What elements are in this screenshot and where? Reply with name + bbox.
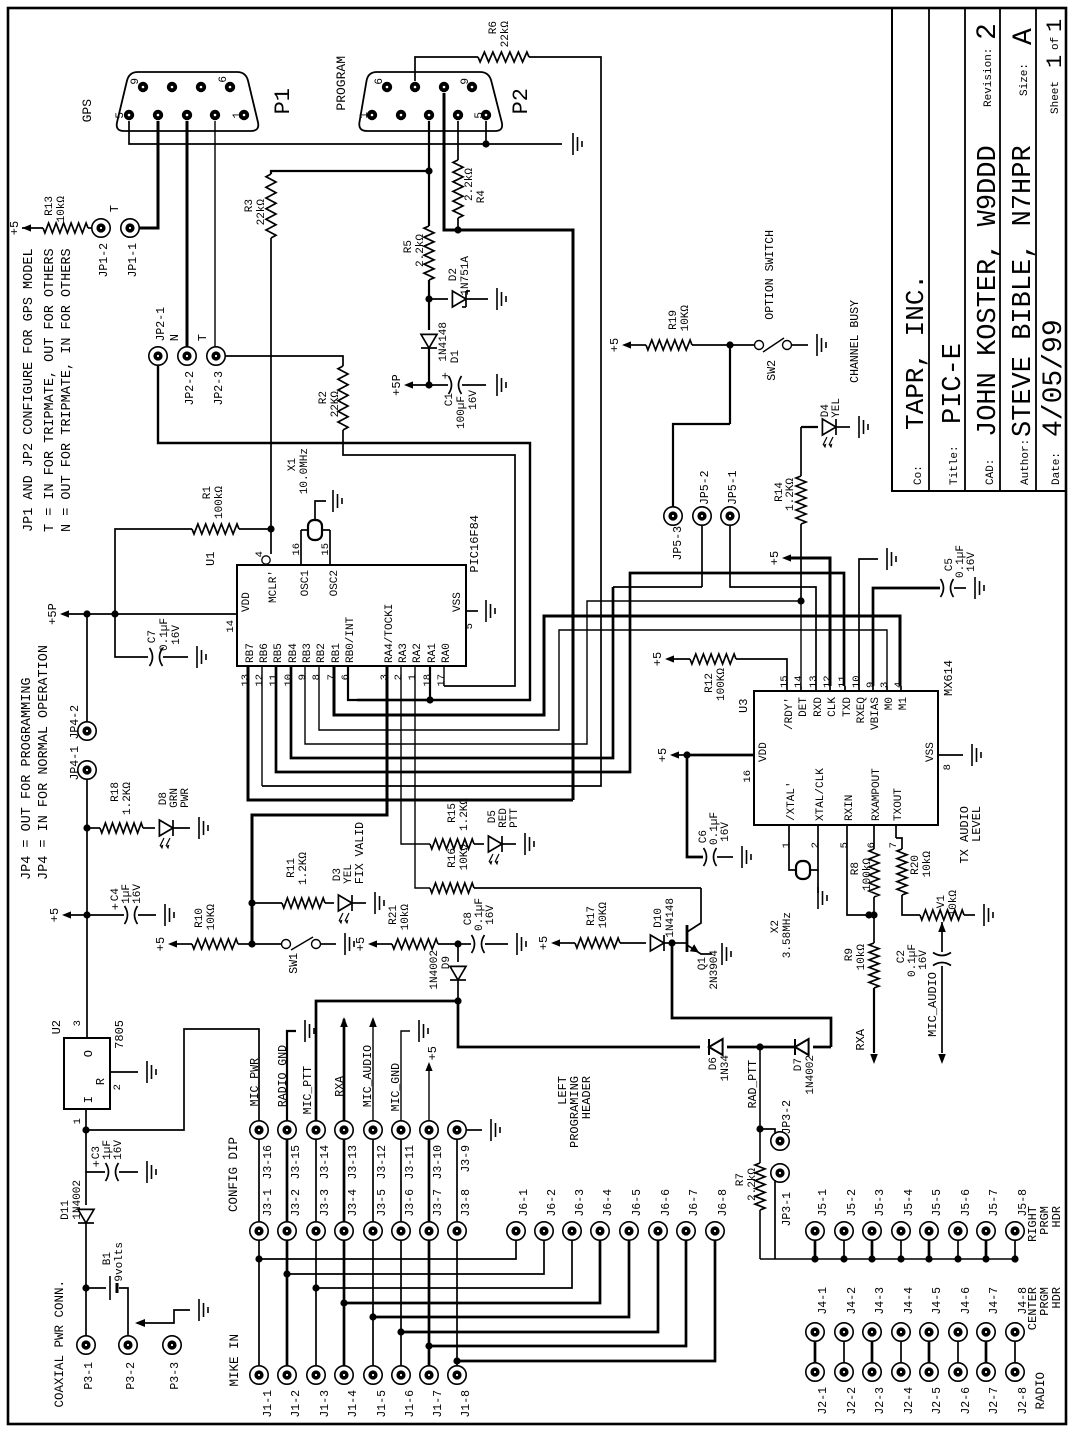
- svg-text:0.1µF: 0.1µF: [159, 618, 171, 651]
- U1 pin 12 RB6: [254, 643, 271, 686]
- pad J2-1: [806, 1363, 830, 1415]
- U3 pin 6 RXAMPOUT: [866, 768, 883, 849]
- junction R1/MCLR: [267, 525, 274, 532]
- svg-text:1N4002: 1N4002: [805, 1055, 817, 1095]
- svg-text:R10: R10: [194, 908, 206, 928]
- resistor R7 2.2k: [735, 1163, 765, 1259]
- wire R6 right to RB6 net: [262, 57, 601, 786]
- resistor R9 100k: [844, 915, 879, 1053]
- title block: [892, 8, 1070, 491]
- svg-text:12: 12: [254, 674, 266, 687]
- wire R6 left to P2 pin7: [415, 57, 478, 81]
- svg-text:Sheet: Sheet: [1050, 81, 1062, 114]
- U3 pin 12 CLK: [822, 675, 839, 716]
- ground (D4): [859, 416, 868, 438]
- pad J4-1: [806, 1287, 830, 1341]
- svg-text:D6: D6: [708, 1057, 720, 1070]
- wire RB4 to JP5-2 (RXD side): [291, 587, 613, 758]
- svg-text:3: 3: [72, 1020, 84, 1026]
- svg-text:R5: R5: [403, 240, 415, 253]
- junction U2 input / C3: [82, 1126, 89, 1133]
- wire J3-11 to J3-6: [400, 1139, 402, 1222]
- pad J1-3: [307, 1366, 332, 1418]
- svg-text:JP2-3: JP2-3: [213, 371, 226, 406]
- svg-text:J6-2: J6-2: [546, 1189, 559, 1217]
- junction C6: [683, 751, 690, 758]
- svg-text:15: 15: [779, 675, 791, 688]
- svg-text:R3: R3: [244, 199, 256, 212]
- junction RAD_PTT: [756, 1043, 763, 1050]
- U1 pin 4 MCLR: [254, 529, 280, 603]
- svg-text:RA1: RA1: [427, 643, 439, 663]
- svg-text:RA3: RA3: [398, 643, 410, 663]
- junction D2: [425, 295, 432, 302]
- svg-text:J6-3: J6-3: [574, 1189, 587, 1217]
- svg-text:MIC_AUDIO: MIC_AUDIO: [926, 972, 940, 1037]
- svg-text:FIX VALID: FIX VALID: [354, 822, 367, 884]
- U3 pin 11 TXD: [837, 675, 854, 716]
- svg-text:JP1-2: JP1-2: [98, 243, 111, 278]
- svg-text:JP1 AND JP2 CONFIGURE FOR GPS: JP1 AND JP2 CONFIGURE FOR GPS MODEL: [22, 248, 37, 532]
- pad J3-13: [335, 1121, 360, 1180]
- svg-text:J1-5: J1-5: [376, 1390, 389, 1418]
- wire R2 to RA0: [343, 430, 515, 686]
- jumper pad JP2-3: [207, 347, 226, 406]
- ground (Q1 emitter): [722, 943, 731, 965]
- svg-text:JP3-2: JP3-2: [781, 1100, 794, 1135]
- svg-text:U1: U1: [204, 552, 218, 566]
- svg-text:J3-9: J3-9: [460, 1145, 473, 1173]
- svg-text:RB6: RB6: [259, 643, 271, 663]
- wire D9 node to RAD_PTT row: [458, 1001, 700, 1047]
- jumper pad JP3-2: [760, 1100, 794, 1150]
- junction +5P node: [425, 381, 432, 388]
- label MIC_GND: [390, 1031, 410, 1121]
- label RADIO_GND: [277, 1031, 296, 1121]
- svg-text:SW1: SW1: [288, 953, 301, 974]
- svg-text:U3: U3: [737, 699, 751, 713]
- svg-text:11: 11: [837, 675, 849, 688]
- pad J2-6: [949, 1363, 973, 1415]
- svg-text:D1: D1: [450, 350, 462, 364]
- svg-text:J3-6: J3-6: [404, 1189, 417, 1217]
- svg-text:1: 1: [72, 1118, 84, 1124]
- power +5P: [390, 374, 429, 396]
- svg-text:J3-16: J3-16: [262, 1145, 275, 1180]
- U3 pin 5 RXIN: [839, 795, 856, 849]
- svg-text:Author:: Author:: [1020, 439, 1032, 485]
- svg-text:MIC_PWR: MIC_PWR: [249, 1058, 262, 1106]
- diode D9 1N4002: [429, 944, 466, 1001]
- label LEFT PROGRAMING HEADER: [556, 1076, 594, 1148]
- junction R11: [248, 899, 255, 906]
- wire MIC_PWR feed: [86, 1029, 259, 1130]
- svg-text:J2-2: J2-2: [846, 1387, 859, 1415]
- pad J6-2: [535, 1189, 559, 1240]
- U3 pin 13 RXD: [808, 675, 825, 716]
- svg-text:14: 14: [793, 675, 805, 688]
- jumper pad JP1-1: [121, 219, 140, 278]
- wire RB2 to U3 M0: [319, 630, 887, 730]
- signal MIC_AUDIO out: [926, 972, 946, 1064]
- wire J3-5 to J1/J6: [369, 1240, 629, 1366]
- resistor R5 2.2k: [403, 226, 434, 299]
- ground (C4): [165, 904, 174, 926]
- svg-text:100KΩ: 100KΩ: [716, 668, 728, 701]
- pad J1-4: [335, 1366, 360, 1418]
- power +5 (R21): [354, 937, 392, 951]
- svg-text:7805: 7805: [113, 1020, 127, 1049]
- power +5 (R10): [154, 937, 192, 951]
- svg-text:JP4 = OUT FOR PROGRAMMING: JP4 = OUT FOR PROGRAMMING: [20, 677, 35, 880]
- svg-text:J3-1: J3-1: [262, 1189, 275, 1217]
- svg-text:100µF: 100µF: [456, 396, 468, 429]
- wire P1 pin5 / P2 pin5 to ground: [129, 121, 560, 148]
- resistor R16 10K: [430, 844, 701, 893]
- LED D5 RED PTT: [487, 808, 521, 866]
- junction R18: [83, 824, 90, 831]
- pad J6-5: [620, 1189, 644, 1240]
- svg-text:J3-12: J3-12: [376, 1145, 389, 1180]
- resistor R14 1.2K: [774, 427, 806, 601]
- wire RA2 to R16: [415, 666, 430, 888]
- svg-text:RADIO: RADIO: [1034, 1372, 1048, 1410]
- svg-text:6: 6: [866, 842, 878, 848]
- LED D8 GRN PWR: [158, 788, 192, 850]
- svg-text:3: 3: [379, 674, 391, 680]
- pad J2-2: [835, 1363, 859, 1415]
- svg-text:D9: D9: [441, 956, 453, 969]
- svg-text:JP5-3: JP5-3: [672, 526, 685, 561]
- junction R21/C8/D9: [454, 940, 461, 947]
- svg-text:MX614: MX614: [942, 660, 956, 696]
- resistor R6 22k: [478, 21, 529, 62]
- svg-text:J1-1: J1-1: [262, 1390, 275, 1418]
- jumper pad JP2-1: [149, 307, 182, 365]
- svg-text:/XTAL': /XTAL': [786, 781, 798, 821]
- svg-text:16V: 16V: [485, 905, 497, 925]
- svg-text:J3-8: J3-8: [460, 1189, 473, 1217]
- svg-text:9: 9: [865, 682, 877, 688]
- U1 pin 9 RB3: [297, 643, 314, 680]
- svg-text:of: of: [1050, 37, 1062, 50]
- svg-text:RXIN: RXIN: [844, 795, 856, 821]
- svg-text:PIC16F84: PIC16F84: [468, 515, 482, 573]
- ground (X2): [818, 887, 827, 909]
- junction RA1: [426, 696, 433, 703]
- svg-text:RB3: RB3: [302, 643, 314, 663]
- svg-text:11: 11: [268, 674, 280, 687]
- pad J4-5: [920, 1287, 944, 1341]
- wire J3-7 to J1/J6: [425, 1240, 686, 1366]
- junction Q1 base: [668, 939, 675, 946]
- svg-text:+5: +5: [426, 1046, 440, 1060]
- svg-text:MIKE IN: MIKE IN: [228, 1334, 242, 1387]
- wire PTT row to MIC_PTT: [316, 1001, 458, 1121]
- ground (SW1): [345, 933, 354, 955]
- wire RXIN junction: [847, 838, 873, 919]
- svg-text:J3-11: J3-11: [404, 1145, 417, 1180]
- wire J3-2 to J1/J6: [283, 1240, 544, 1366]
- wire J4-8 to J2-8: [1014, 1341, 1016, 1363]
- svg-text:M1: M1: [898, 697, 910, 711]
- svg-text:PWR: PWR: [180, 788, 192, 808]
- svg-text:J6-4: J6-4: [602, 1189, 615, 1217]
- capacitor C2 0.1uF: [896, 944, 951, 1053]
- ground (C1): [497, 374, 506, 396]
- svg-text:R16: R16: [447, 848, 459, 868]
- svg-text:D10: D10: [653, 908, 665, 928]
- capacitor C3 1uF: [86, 1130, 138, 1181]
- U1 pin 1 RA2: [407, 643, 424, 680]
- wire J3-12 to J3-5: [372, 1139, 374, 1222]
- IC U1 PIC16F84: [204, 515, 482, 666]
- connector pad P3-3: [163, 1336, 182, 1390]
- U3 pin 3 M0: [879, 682, 896, 711]
- pad J3-12: [364, 1121, 389, 1180]
- svg-text:J3-13: J3-13: [347, 1145, 360, 1180]
- svg-text:1N751A: 1N751A: [460, 256, 472, 296]
- junction battery: [82, 1284, 89, 1291]
- wire J4-4 to J2-4: [900, 1341, 902, 1363]
- svg-text:J2-5: J2-5: [931, 1387, 944, 1415]
- svg-text:N = OUT FOR TRIPMATE, IN FOR O: N = OUT FOR TRIPMATE, IN FOR OTHERS: [60, 248, 75, 532]
- svg-text:1.2KΩ: 1.2KΩ: [785, 478, 797, 511]
- svg-text:13: 13: [240, 674, 252, 687]
- svg-text:1.2KΩ: 1.2KΩ: [122, 782, 134, 815]
- ground (C3): [147, 1161, 156, 1183]
- svg-text:J6-7: J6-7: [688, 1189, 701, 1217]
- jumper pad JP3-1: [771, 1164, 794, 1259]
- svg-text:J1-4: J1-4: [347, 1390, 360, 1418]
- svg-text:PTT: PTT: [509, 808, 521, 828]
- U3 pin 2 XTAL/CLK: [810, 768, 827, 849]
- svg-text:Co:: Co:: [913, 465, 925, 485]
- svg-text:X2: X2: [770, 920, 782, 933]
- wire U2 input down: [85, 1109, 87, 1130]
- wire +5 rail to U2 output: [86, 915, 88, 1038]
- wire JP1-1 to P1 pin4: [139, 121, 158, 228]
- svg-text:9: 9: [130, 78, 142, 85]
- U3 pin 16 VDD: [700, 742, 770, 783]
- svg-text:R11: R11: [286, 858, 298, 878]
- svg-text:1N4002: 1N4002: [429, 950, 441, 990]
- ground (C7): [197, 646, 206, 668]
- svg-text:6: 6: [340, 674, 352, 680]
- svg-text:LEVEL: LEVEL: [970, 806, 984, 842]
- svg-text:4/05/99: 4/05/99: [1039, 319, 1070, 437]
- svg-text:1.2KΩ: 1.2KΩ: [459, 798, 471, 831]
- svg-text:J6-5: J6-5: [631, 1189, 644, 1217]
- svg-text:T: T: [108, 205, 122, 212]
- svg-text:J6-1: J6-1: [518, 1189, 531, 1217]
- wire RB7 to P2 programming (pin 13 net): [248, 666, 573, 800]
- svg-text:J2-1: J2-1: [817, 1387, 830, 1415]
- svg-text:1N4148: 1N4148: [438, 322, 450, 362]
- svg-text:J3-14: J3-14: [319, 1145, 332, 1180]
- pad J2-3: [863, 1363, 887, 1415]
- svg-text:Size:: Size:: [1019, 63, 1031, 96]
- svg-text:T = IN FOR TRIPMATE, OUT FOR O: T = IN FOR TRIPMATE, OUT FOR OTHERS: [43, 248, 58, 532]
- svg-text:J6-8: J6-8: [717, 1189, 730, 1217]
- pad J4-2: [835, 1287, 859, 1341]
- power +5 (CLK): [768, 551, 830, 686]
- jumper pad JP4-1: [69, 746, 96, 781]
- wire RB0 to RA1 row: [348, 666, 430, 700]
- svg-text:PIC-E: PIC-E: [939, 343, 969, 424]
- LED D3 YEL FIX VALID: [332, 822, 367, 924]
- svg-text:10KΩ: 10KΩ: [680, 305, 692, 332]
- ground (VSS U3): [972, 744, 981, 766]
- connector pad P3-2: [119, 1336, 138, 1390]
- svg-text:JP5-1: JP5-1: [727, 470, 740, 505]
- svg-text:J4-3: J4-3: [874, 1287, 887, 1315]
- svg-text:HDR: HDR: [1050, 1287, 1064, 1309]
- svg-text:J1-2: J1-2: [290, 1390, 303, 1418]
- svg-text:U2: U2: [50, 1020, 64, 1034]
- svg-text:+5P: +5P: [46, 603, 60, 625]
- svg-text:17: 17: [436, 674, 448, 687]
- wire RAD_PTT down to R7: [759, 1047, 761, 1163]
- ground (X1): [333, 490, 342, 512]
- pad J5-4: [892, 1189, 916, 1263]
- svg-text:J1-7: J1-7: [432, 1390, 445, 1418]
- junction R8/R9: [870, 911, 877, 918]
- svg-text:16: 16: [291, 543, 303, 556]
- pad J4-8: [1006, 1287, 1030, 1341]
- svg-text:TXOUT: TXOUT: [893, 788, 905, 821]
- U1 pin 15 OSC2: [320, 530, 341, 596]
- wire JP4-1 to +5 rail: [86, 779, 88, 915]
- ground (C6): [742, 846, 751, 868]
- pad J5-3: [863, 1189, 887, 1263]
- pad J2-4: [892, 1363, 916, 1415]
- wire R3 top to P2 pin3 column: [271, 167, 433, 174]
- junction D9 / PTT row: [454, 997, 461, 1004]
- pad J3-2: [278, 1189, 303, 1240]
- wire J3-8 to J1/J6: [453, 1240, 715, 1366]
- capacitor C5 0.1uF: [941, 545, 979, 597]
- svg-text:1: 1: [407, 674, 419, 680]
- P2 pins: [359, 78, 491, 120]
- resistor R8 100k: [850, 838, 879, 915]
- svg-text:+5: +5: [354, 937, 368, 951]
- svg-text:1: 1: [781, 842, 793, 848]
- svg-text:7: 7: [888, 842, 900, 848]
- wire JP2-1 to RA1/RB0 net: [158, 365, 530, 700]
- diode D7 1N4002: [760, 1039, 831, 1095]
- svg-text:12: 12: [822, 675, 834, 688]
- capacitor C4 1uF: [87, 884, 156, 924]
- wire J3-16 to J3-1: [258, 1139, 260, 1222]
- svg-text:100kΩ: 100kΩ: [862, 858, 874, 891]
- svg-text:JP4 = IN FOR NORMAL OPERATION: JP4 = IN FOR NORMAL OPERATION: [37, 645, 52, 880]
- svg-text:+5: +5: [656, 748, 670, 762]
- wire U2 R pin to ground: [110, 1071, 138, 1073]
- svg-text:10kΩ: 10kΩ: [948, 890, 960, 917]
- svg-text:RB2: RB2: [316, 643, 328, 663]
- svg-text:R7: R7: [735, 1173, 747, 1186]
- resistor R2 22K: [318, 366, 348, 430]
- svg-text:2: 2: [112, 1084, 124, 1090]
- svg-text:D2: D2: [448, 268, 460, 281]
- svg-text:R: R: [94, 1078, 108, 1085]
- U1 pin 18 RA1: [422, 643, 439, 687]
- svg-text:+5: +5: [608, 338, 622, 352]
- svg-text:16V: 16V: [966, 552, 978, 572]
- svg-text:3.58MHz: 3.58MHz: [782, 912, 794, 958]
- pad J4-6: [949, 1287, 973, 1341]
- wire RB1 to U3 M1: [334, 616, 900, 715]
- svg-text:5: 5: [474, 112, 486, 119]
- svg-text:MIC_PTT: MIC_PTT: [302, 1066, 315, 1114]
- svg-text:J2-3: J2-3: [874, 1387, 887, 1415]
- svg-text:HEADER: HEADER: [580, 1076, 594, 1119]
- svg-text:D7: D7: [793, 1058, 805, 1071]
- svg-text:15: 15: [320, 543, 332, 556]
- label TX AUDIO LEVEL: [958, 806, 984, 864]
- wire VDD rail to JP4-2: [86, 614, 88, 722]
- pad J6-7: [677, 1189, 701, 1240]
- pad J3-3: [307, 1189, 332, 1240]
- resistor R3 22k: [244, 174, 276, 238]
- svg-text:R6: R6: [488, 21, 500, 34]
- svg-text:RA4/TOCKI: RA4/TOCKI: [384, 604, 396, 663]
- svg-text:CLK: CLK: [827, 697, 839, 717]
- svg-text:VSS: VSS: [452, 592, 464, 612]
- svg-text:RA0: RA0: [441, 643, 453, 663]
- svg-text:100kΩ: 100kΩ: [214, 486, 226, 519]
- svg-text:1: 1: [1043, 19, 1068, 32]
- note JP1/JP2 configuration: [22, 248, 75, 532]
- svg-text:3: 3: [879, 682, 891, 688]
- signal RXA out: [854, 1028, 878, 1064]
- svg-text:14: 14: [225, 620, 237, 633]
- svg-text:10KΩ: 10KΩ: [459, 844, 471, 871]
- resistor R21 10k: [388, 904, 458, 949]
- junction C4: [83, 911, 90, 918]
- svg-text:18: 18: [422, 674, 434, 687]
- svg-text:J3-15: J3-15: [290, 1145, 303, 1180]
- wire RB6 stub: [261, 666, 263, 786]
- svg-text:DET: DET: [798, 697, 810, 717]
- chassis ground arrow: [135, 1310, 190, 1327]
- svg-text:TAPR, INC.: TAPR, INC.: [901, 274, 931, 430]
- resistor R17 10K: [575, 902, 646, 948]
- wire J4-6 to J2-6: [957, 1341, 959, 1363]
- svg-text:J3-10: J3-10: [432, 1145, 445, 1180]
- pad J6-1: [507, 1189, 531, 1240]
- U1 pin 8 RB2: [311, 643, 328, 680]
- ground (U2): [147, 1061, 156, 1083]
- svg-text:JP2-1: JP2-1: [155, 307, 168, 342]
- U1 pin 17 RA0: [436, 643, 453, 686]
- potentiometer V1 10k: [920, 890, 975, 952]
- svg-text:6: 6: [218, 76, 230, 83]
- svg-text:A: A: [1009, 28, 1040, 45]
- wire J4-7 to J2-7: [985, 1341, 988, 1363]
- svg-text:16V: 16V: [113, 1140, 125, 1160]
- crystal X2 3.58MHz: [770, 838, 818, 958]
- svg-text:+5P: +5P: [390, 374, 404, 396]
- wire J3-4 to J1/J6: [340, 1240, 600, 1366]
- U1 pin 16 OSC1: [291, 530, 312, 596]
- power +5 (R19): [608, 338, 646, 352]
- svg-text:J6-6: J6-6: [660, 1189, 673, 1217]
- svg-text:5: 5: [115, 112, 127, 119]
- svg-text:J5-3: J5-3: [874, 1189, 887, 1217]
- pad J3-16: [250, 1121, 275, 1180]
